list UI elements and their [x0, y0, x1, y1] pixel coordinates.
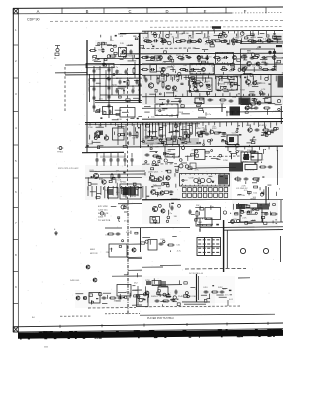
capacitor C115 — [119, 80, 122, 85]
wire cluster D6 — [145, 146, 199, 162]
capacitor C133 — [190, 68, 195, 71]
svg-text:E: E — [54, 229, 56, 231]
capacitor C124 — [187, 39, 192, 42]
wire — [154, 97, 156, 103]
svg-text:PW: PW — [196, 205, 199, 207]
wire — [221, 104, 223, 112]
svg-text:4.7u: 4.7u — [248, 147, 252, 149]
node F1a — [121, 205, 125, 209]
wire — [226, 230, 228, 268]
capacitor C105 — [93, 87, 96, 92]
resistor R146 — [252, 178, 260, 180]
resistor R135 — [151, 137, 159, 139]
wire — [96, 153, 98, 157]
wire cluster C2 — [144, 104, 236, 118]
svg-text:D420 LED: D420 LED — [70, 280, 80, 282]
svg-text:R371 C372 4.7K 0.022: R371 C372 4.7K 0.022 — [58, 168, 79, 170]
wire cluster D3 — [196, 125, 241, 147]
node blob10 — [231, 208, 262, 223]
wire cluster E5 — [238, 185, 280, 199]
ground — [178, 99, 182, 103]
wire — [185, 75, 187, 80]
IC CN301 connector — [183, 188, 228, 198]
wire — [142, 95, 283, 98]
svg-text:7: 7 — [15, 221, 17, 225]
node edge blob2 — [278, 76, 284, 88]
node blob F4b — [257, 204, 269, 210]
IC IC207 — [241, 75, 271, 104]
capacitor C145 — [173, 136, 178, 139]
resistor R133 — [263, 107, 271, 109]
wire — [85, 177, 142, 179]
node cluster — [179, 163, 196, 169]
resistor R115 — [213, 57, 221, 59]
wire — [200, 226, 283, 229]
capacitor C172 — [171, 299, 176, 302]
capacitor C159 — [244, 178, 249, 181]
wire cluster A1 — [93, 44, 144, 61]
wire cluster B2 — [146, 53, 283, 66]
svg-text:47u: 47u — [201, 128, 204, 130]
wire — [280, 200, 282, 222]
transistor Q205 — [166, 85, 171, 90]
capacitor C107 — [93, 105, 96, 110]
svg-text:4.7u: 4.7u — [168, 213, 172, 215]
wire — [169, 55, 171, 60]
svg-text:D310 D311: D310 D311 — [245, 170, 254, 172]
transistor Q109 — [267, 39, 271, 43]
svg-text:MUTE: MUTE — [247, 53, 254, 55]
svg-text:4.7K: 4.7K — [261, 89, 266, 91]
IC SW601 — [137, 295, 149, 307]
capacitor C132 — [150, 68, 155, 71]
wire — [105, 313, 140, 315]
svg-text:1/2W: 1/2W — [251, 37, 256, 39]
resistor R104 — [127, 79, 129, 87]
node blob H2a — [158, 281, 166, 287]
wire — [241, 38, 243, 43]
svg-text:R350: R350 — [196, 128, 201, 130]
wire — [139, 34, 141, 104]
wire cluster G1 — [105, 231, 144, 254]
transistor Q312 — [160, 191, 164, 195]
svg-text:F401 2A: F401 2A — [237, 194, 245, 197]
transistor Q304 — [186, 134, 190, 138]
capacitor C129 — [206, 56, 209, 61]
wire — [238, 277, 250, 279]
resistor R123 — [240, 56, 248, 58]
svg-text:8: 8 — [15, 253, 17, 257]
wire cluster D4 — [246, 124, 278, 146]
transistor Q308 — [149, 175, 154, 180]
transistor Q311 — [151, 190, 156, 195]
wire — [105, 70, 107, 100]
svg-text:E: E — [204, 9, 207, 14]
resistor R112 — [250, 41, 258, 43]
node blob3 — [195, 98, 249, 105]
capacitor C167 — [204, 291, 209, 294]
node blob B5 — [239, 98, 251, 105]
wire — [199, 218, 201, 232]
node blob F4a — [236, 204, 245, 209]
svg-text:2.2K: 2.2K — [242, 218, 247, 220]
svg-text:330: 330 — [240, 37, 243, 39]
capacitor C110 — [108, 86, 111, 91]
resistor R152 — [109, 297, 117, 299]
wire cluster taps — [146, 91, 269, 96]
IC IC404 — [148, 240, 157, 251]
label dash row — [182, 302, 210, 305]
IC IC407 — [158, 287, 168, 295]
capacitor C131 — [264, 63, 269, 66]
wire — [240, 42, 283, 45]
svg-text:R1: R1 — [54, 58, 56, 60]
svg-text:4.7K: 4.7K — [115, 70, 120, 72]
node — [199, 229, 200, 230]
wire — [117, 124, 119, 145]
svg-text:PLAYER PCB TS-5786-0: PLAYER PCB TS-5786-0 — [147, 317, 174, 320]
wire — [120, 52, 283, 55]
svg-text:TO SW PCB: TO SW PCB — [98, 220, 111, 222]
wire — [60, 315, 92, 317]
wire — [178, 75, 180, 80]
wire — [223, 220, 225, 272]
wire cluster C3 — [245, 99, 281, 114]
IC T401 — [196, 218, 212, 226]
wire — [162, 31, 164, 39]
transistor Q306 — [93, 173, 98, 178]
wire — [65, 63, 142, 66]
capacitor C114 — [125, 70, 128, 75]
resistor R106 — [160, 41, 168, 43]
wire cluster D7 — [205, 147, 266, 164]
svg-text:5: 5 — [15, 159, 17, 163]
resistor R111 — [235, 41, 243, 43]
capacitor C153 — [117, 158, 120, 163]
wire — [196, 274, 198, 302]
wire — [142, 47, 196, 49]
svg-text:4: 4 — [15, 126, 17, 130]
transistor Q114 — [202, 68, 206, 72]
IC IC100 strip — [86, 63, 114, 67]
wire cluster E2 — [145, 172, 178, 199]
wire — [277, 150, 279, 185]
resistor R143 — [259, 166, 267, 168]
svg-text:4.7u: 4.7u — [189, 127, 193, 129]
diode D101 — [123, 88, 125, 94]
wire — [145, 186, 147, 200]
wire — [145, 305, 240, 308]
resistor R116 — [252, 57, 259, 59]
node — [132, 86, 133, 87]
wire — [82, 151, 124, 153]
capacitor C169 — [102, 297, 107, 300]
wire — [108, 64, 110, 118]
IC IC301 — [120, 108, 135, 118]
wire — [212, 67, 214, 72]
svg-text:RP301: RP301 — [120, 182, 127, 184]
wire — [280, 106, 282, 124]
wire — [128, 269, 142, 271]
IC IC401 — [150, 217, 160, 224]
resistor R120 — [247, 40, 255, 42]
wire — [227, 300, 229, 306]
wire — [117, 163, 119, 167]
capacitor C151 — [103, 158, 106, 163]
transistor Q102 — [159, 56, 163, 60]
capacitor C121 — [223, 56, 228, 59]
node blob11 — [146, 281, 161, 286]
capacitor C146 — [205, 133, 210, 136]
svg-text:4.7K: 4.7K — [188, 37, 193, 39]
wire — [128, 243, 142, 245]
wire — [89, 74, 91, 102]
capacitor C128 — [180, 58, 185, 61]
transistor Q207 — [246, 80, 251, 85]
wire — [265, 186, 267, 205]
svg-text:C360: C360 — [246, 125, 251, 127]
node — [116, 78, 117, 79]
svg-text:C31: C31 — [206, 53, 209, 55]
svg-text:4.7u: 4.7u — [126, 232, 130, 234]
wire — [170, 75, 172, 80]
wire — [156, 75, 158, 80]
wire — [172, 67, 174, 72]
wire cluster E1drops — [88, 186, 143, 199]
resistor R130 — [248, 94, 256, 96]
svg-text:4.7u: 4.7u — [126, 291, 130, 293]
svg-text:C410 10u: C410 10u — [98, 210, 108, 212]
svg-text:C31: C31 — [176, 245, 181, 247]
wire — [142, 107, 226, 110]
wire cluster B4b — [219, 78, 235, 89]
wire cluster B4 — [149, 76, 245, 97]
node TP — [59, 147, 62, 150]
node blob5 — [227, 135, 238, 145]
wire cluster A2 — [96, 64, 141, 102]
capacitor C156 — [145, 154, 150, 157]
node blob8 — [229, 163, 257, 172]
svg-text:10u: 10u — [110, 40, 113, 42]
svg-text:4.7u: 4.7u — [244, 190, 248, 192]
svg-text:3: 3 — [15, 92, 17, 96]
svg-text:A: A — [37, 9, 40, 14]
IC IC201 — [216, 53, 234, 64]
wire — [208, 38, 210, 43]
wire cluster B3 — [156, 65, 283, 77]
svg-text:D405: D405 — [98, 217, 104, 219]
capacitor C104 — [93, 78, 96, 83]
wire — [88, 307, 136, 309]
node blob4 — [230, 107, 241, 116]
svg-text:47u: 47u — [191, 150, 194, 152]
wire — [137, 286, 139, 305]
capacitor C141 — [254, 107, 259, 110]
capacitor C154 — [124, 158, 127, 163]
capacitor C102 — [130, 50, 133, 55]
wire — [226, 111, 283, 114]
svg-text:47u: 47u — [116, 192, 119, 194]
node — [200, 178, 204, 182]
wire — [118, 203, 142, 205]
svg-text:47u: 47u — [129, 78, 132, 80]
wire cluster B1 — [151, 32, 280, 47]
wire — [124, 163, 126, 167]
node blob F0 — [108, 189, 113, 195]
transistor Q105 — [272, 56, 276, 60]
wire cluster B4a — [192, 84, 213, 91]
svg-text:R216: R216 — [117, 119, 123, 121]
transistor Q302 — [95, 131, 100, 136]
node — [199, 83, 203, 87]
transistor Q108 — [231, 39, 235, 43]
wire — [142, 117, 283, 120]
capacitor C136 — [145, 78, 148, 83]
svg-text:Q320 Q321: Q320 Q321 — [148, 172, 159, 174]
capacitor C155 — [131, 158, 134, 163]
wire — [145, 97, 147, 104]
IC IC303 — [113, 128, 125, 140]
wire — [131, 163, 133, 167]
capacitor C101 — [102, 48, 105, 53]
transistor Q307 — [102, 180, 106, 184]
capacitor C147 — [222, 133, 227, 136]
transistor Q409 — [83, 296, 86, 299]
wire — [142, 62, 214, 65]
wire — [253, 67, 255, 72]
capacitor C168 — [220, 291, 225, 294]
svg-text:100: 100 — [281, 96, 283, 98]
capacitor C160 — [169, 191, 174, 194]
transistor Q408 — [76, 296, 80, 300]
wire — [198, 276, 200, 300]
capacitor C138 — [208, 99, 213, 102]
svg-text:4.7K: 4.7K — [161, 79, 166, 81]
wire — [100, 173, 145, 175]
IC IC406 — [117, 285, 131, 297]
wire — [163, 75, 165, 80]
capacitor C135 — [271, 68, 276, 71]
svg-text:1/2W: 1/2W — [145, 280, 150, 282]
wire — [112, 275, 142, 277]
resistor R127 — [262, 69, 270, 71]
IC IC302 — [155, 104, 178, 116]
resistor R125 — [179, 69, 187, 71]
capacitor C122 — [261, 56, 266, 59]
node blob — [268, 51, 276, 54]
transistor Q406 — [145, 291, 149, 295]
wire — [140, 314, 275, 315]
wire cluster F3 — [191, 205, 227, 225]
wire — [140, 228, 142, 252]
resistor R110 — [220, 41, 228, 43]
wire cluster H1 — [114, 273, 143, 302]
wire — [124, 153, 126, 157]
svg-text:X301: X301 — [167, 151, 173, 153]
ground — [54, 231, 58, 235]
wire — [96, 163, 98, 167]
capacitor C161 — [171, 206, 174, 211]
wire — [127, 256, 142, 258]
wire — [120, 63, 283, 66]
IC IC202 — [241, 49, 275, 70]
resistor R128 — [157, 77, 159, 85]
wire — [55, 72, 87, 74]
wire — [120, 32, 148, 34]
wire — [160, 264, 181, 266]
svg-text:47u: 47u — [212, 126, 215, 128]
svg-text:47u: 47u — [124, 221, 127, 223]
svg-text:4.7K: 4.7K — [143, 37, 148, 39]
wire — [103, 163, 105, 167]
wire — [144, 75, 146, 80]
transistor Q204 — [148, 83, 153, 88]
wire — [185, 267, 246, 270]
capacitor C112 — [108, 104, 111, 109]
wire cluster taps — [145, 31, 275, 35]
resistor R103 — [133, 67, 135, 75]
ground — [102, 62, 106, 66]
resistor R105 — [145, 41, 153, 43]
wire cluster D1 — [86, 124, 142, 148]
resistor R153 — [162, 300, 170, 302]
svg-text:D: D — [165, 9, 168, 14]
wire — [207, 31, 209, 39]
svg-text:SW601: SW601 — [151, 296, 158, 298]
svg-text:10u: 10u — [198, 134, 201, 136]
capacitor C120 — [187, 56, 192, 59]
wire — [105, 227, 122, 229]
wire — [192, 31, 194, 39]
capacitor C150 — [96, 158, 99, 163]
resistor R113 — [141, 57, 149, 59]
svg-text:SERVO AMP: SERVO AMP — [87, 78, 90, 92]
transistor Q203 — [256, 62, 260, 66]
wire — [172, 38, 174, 43]
wire cluster D2drops — [143, 123, 195, 145]
svg-text:472: 472 — [120, 36, 124, 38]
svg-text:1: 1 — [15, 28, 17, 32]
resistor R141 — [249, 151, 257, 153]
wire cluster H2 — [143, 278, 196, 302]
transistor Q208 — [253, 81, 257, 85]
wire cluster A0 — [101, 34, 140, 47]
wire cluster B4c — [244, 77, 271, 101]
transistor Q104 — [233, 56, 237, 60]
wire — [90, 85, 142, 87]
wire cluster G2 — [143, 237, 181, 253]
capacitor C152 — [110, 158, 113, 163]
capacitor C139 — [229, 100, 234, 103]
svg-text:4.7u: 4.7u — [153, 184, 157, 186]
svg-text:PLAY STOP FF REW: PLAY STOP FF REW — [178, 295, 197, 298]
wire — [142, 198, 283, 201]
wire — [124, 211, 128, 213]
wire — [147, 31, 149, 39]
wire — [85, 146, 283, 147]
capacitor C103 — [93, 69, 96, 74]
capacitor C140 — [109, 110, 112, 115]
resistor R144 — [111, 173, 113, 181]
capacitor C166 — [175, 290, 178, 295]
node — [193, 83, 197, 87]
svg-text:UM5100: UM5100 — [97, 43, 106, 45]
wire cluster taps — [144, 76, 276, 82]
resistor R132 — [249, 103, 257, 105]
wire — [95, 170, 145, 172]
svg-text:R361: R361 — [262, 125, 267, 127]
wire — [275, 62, 277, 71]
